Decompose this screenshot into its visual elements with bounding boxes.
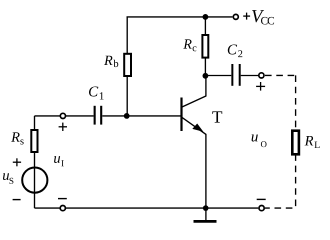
- terminal Vcc circle: [233, 14, 238, 19]
- wire dashed output bottom: [265, 207, 293, 209]
- transistor T base bar: [180, 98, 182, 132]
- label minus output bottom: [257, 198, 266, 200]
- resistor Rb: [124, 54, 131, 76]
- junction dot Vcc rail: [203, 14, 209, 20]
- wire top rail: [127, 16, 233, 18]
- wire Rs to source: [34, 152, 36, 168]
- wire input circle to C1: [66, 115, 94, 117]
- ground stub: [205, 208, 207, 220]
- label Vcc: [252, 10, 264, 22]
- source uS circle: [22, 168, 47, 193]
- resistor Rc: [202, 35, 208, 58]
- capacitor C2: [232, 64, 239, 86]
- wire through source: [34, 168, 36, 208]
- wire C1 to base: [102, 115, 181, 117]
- wire Rb bottom vertical: [126, 76, 128, 116]
- transistor T emitter diagonal: [182, 117, 206, 134]
- wire input rail left segment: [35, 115, 61, 117]
- label minus input bottom: [58, 198, 67, 200]
- label C1: [89, 86, 98, 96]
- transistor T emitter arrow: [192, 124, 203, 132]
- junction dot base node: [124, 113, 130, 119]
- wire dashed RL lower vertical: [295, 154, 297, 208]
- wire Rb top vertical: [126, 17, 128, 54]
- terminal input top circle: [60, 113, 65, 118]
- wire left branch vertical: [34, 116, 36, 130]
- label plus Vcc sign: [243, 13, 250, 20]
- capacitor C1: [95, 106, 102, 125]
- ground bar: [194, 220, 217, 223]
- label minus source bottom: [13, 199, 21, 201]
- wire emitter vertical: [205, 134, 207, 208]
- label plus input terminal: [59, 123, 67, 131]
- label uO: [252, 135, 258, 142]
- wire bottom rail left: [35, 207, 61, 209]
- wire dashed RL upper vertical: [295, 75, 297, 130]
- terminal input bottom circle: [60, 206, 65, 211]
- label plus output terminal: [256, 82, 265, 91]
- wire dashed output top: [265, 74, 296, 76]
- label uS: [3, 173, 9, 180]
- terminal output top circle: [259, 73, 264, 78]
- wire Rc top vertical: [204, 17, 206, 35]
- label plus source top: [13, 158, 21, 166]
- label Rc: [183, 39, 191, 48]
- label C2: [228, 44, 237, 54]
- label Rs: [11, 132, 20, 141]
- wire collector vertical: [205, 76, 207, 96]
- label uI: [54, 156, 60, 163]
- junction dot emitter ground node: [203, 205, 209, 211]
- label RL: [305, 136, 314, 145]
- wire collector node to C2: [205, 75, 231, 77]
- wire Rc bottom vertical: [204, 58, 206, 76]
- label T: [212, 111, 222, 122]
- junction dot collector node: [203, 73, 209, 79]
- resistor Rs: [31, 130, 37, 152]
- wire bottom rail middle: [66, 207, 259, 209]
- label Rb: [104, 56, 113, 65]
- wire C2 to output terminal: [241, 75, 259, 77]
- terminal output bottom circle: [259, 206, 264, 211]
- resistor RL: [292, 131, 299, 155]
- transistor T collector diagonal: [182, 96, 206, 107]
